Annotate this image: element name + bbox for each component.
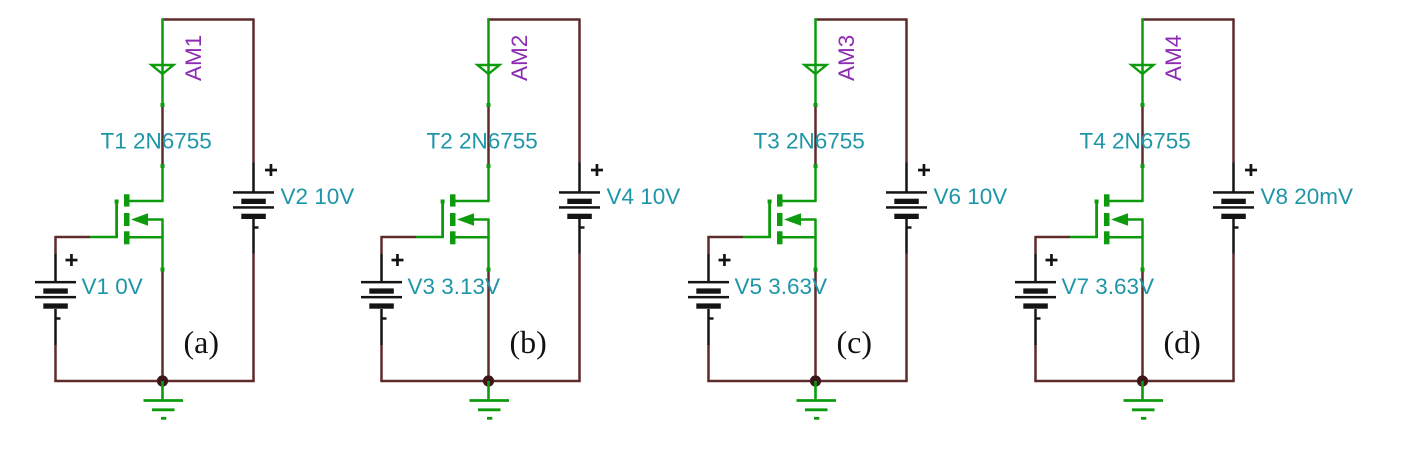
- svg-text:V1 0V: V1 0V: [82, 274, 143, 299]
- svg-text:AM3: AM3: [834, 35, 859, 81]
- svg-text:V5 3.63V: V5 3.63V: [735, 274, 828, 299]
- svg-text:AM4: AM4: [1161, 35, 1186, 81]
- svg-text:V6 10V: V6 10V: [934, 184, 1008, 209]
- svg-text:AM1: AM1: [181, 35, 206, 81]
- svg-text:V2 10V: V2 10V: [281, 184, 355, 209]
- svg-text:(a): (a): [184, 324, 220, 360]
- svg-text:V7 3.63V: V7 3.63V: [1062, 274, 1155, 299]
- svg-text:V4 10V: V4 10V: [607, 184, 681, 209]
- svg-text:T2 2N6755: T2 2N6755: [427, 129, 538, 154]
- svg-text:(c): (c): [837, 324, 873, 360]
- svg-text:(d): (d): [1164, 324, 1201, 360]
- svg-text:T3 2N6755: T3 2N6755: [754, 129, 865, 154]
- svg-text:V3 3.13V: V3 3.13V: [408, 274, 501, 299]
- svg-text:(b): (b): [510, 324, 547, 360]
- svg-text:T4 2N6755: T4 2N6755: [1080, 129, 1191, 154]
- svg-text:AM2: AM2: [507, 35, 532, 81]
- svg-text:T1 2N6755: T1 2N6755: [101, 129, 212, 154]
- svg-text:V8 20mV: V8 20mV: [1261, 184, 1354, 209]
